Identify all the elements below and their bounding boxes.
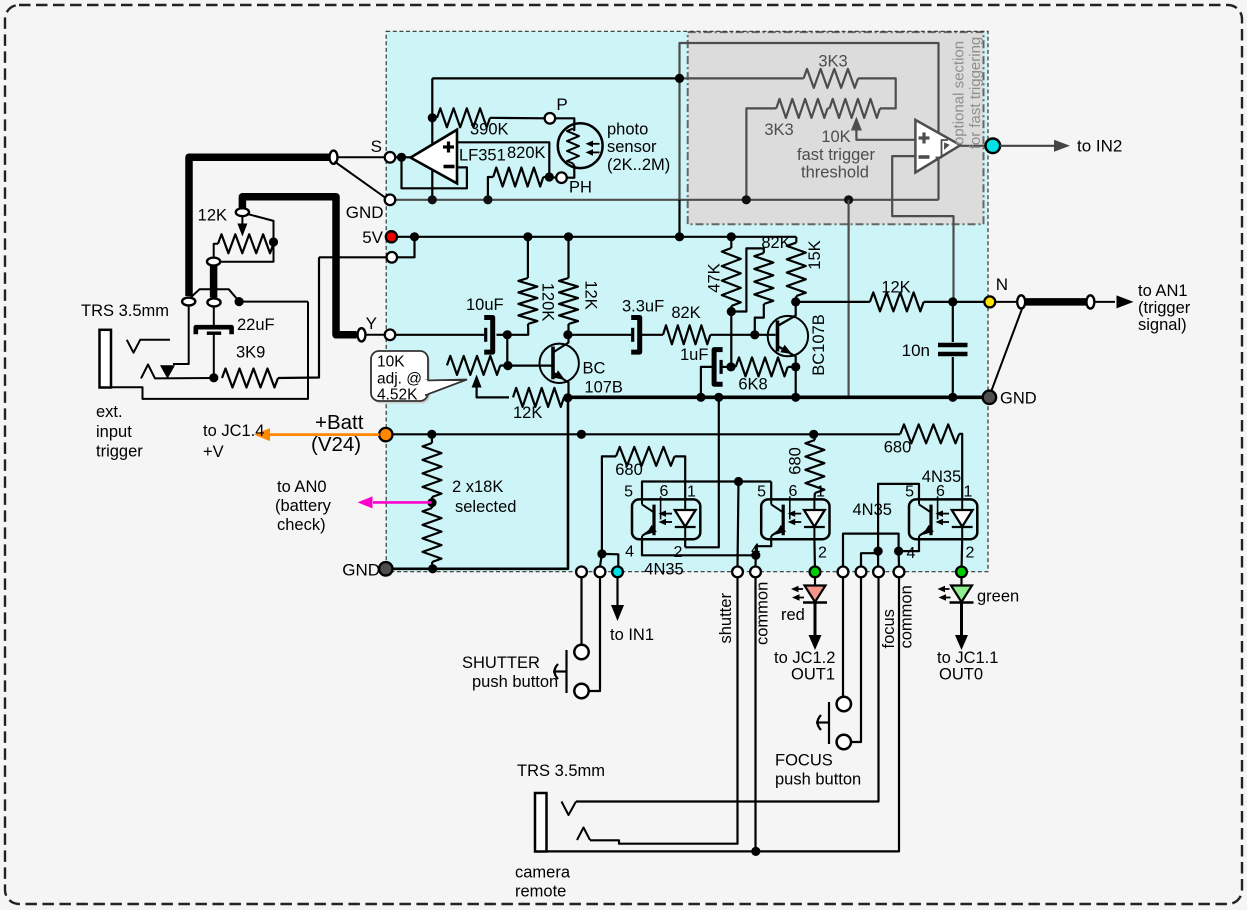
- junction 5V-47K: [727, 232, 736, 241]
- svg-text:LF351: LF351: [459, 147, 506, 165]
- switch SHUTTER contact top: [574, 645, 588, 659]
- junction rail-shutter: [577, 430, 586, 439]
- junction emitter-GND: [563, 393, 572, 402]
- junction 1uF node: [726, 362, 735, 371]
- wire 6K8 right: [788, 366, 796, 368]
- svg-text:input: input: [96, 423, 132, 441]
- svg-text:threshold: threshold: [801, 164, 869, 182]
- svg-text:1: 1: [687, 484, 696, 501]
- wire pin5 U3 run: [642, 482, 771, 500]
- svg-text:to AN0: to AN0: [277, 478, 327, 496]
- op-amp U1 feedback loop: [402, 157, 467, 188]
- resistor 12K output: [870, 292, 924, 311]
- node P terminal: [545, 113, 556, 124]
- junction 5V-120K: [523, 232, 532, 241]
- wire to 120K bottom: [507, 328, 528, 335]
- junction 22uF-3K9: [209, 373, 218, 382]
- node terminal x878.5: [873, 567, 884, 578]
- resistor 680 opto2: [805, 440, 824, 493]
- ext TRS tip contact: [127, 340, 170, 353]
- resistor 82K divider: [754, 253, 773, 304]
- wire pin5 U4: [770, 482, 772, 500]
- svg-text:2 x18K: 2 x18K: [452, 478, 503, 496]
- svg-text:P: P: [556, 95, 567, 114]
- resistor 120K: [518, 278, 537, 324]
- wire 680-1 left: [602, 456, 616, 554]
- junction 5V-12K: [564, 232, 573, 241]
- wire focus pb top: [843, 534, 899, 567]
- wire 680-1 right to pin1: [675, 456, 686, 499]
- svg-text:N: N: [996, 275, 1008, 294]
- wire GND bottom rail: [386, 398, 568, 569]
- ext TRS sleeve: [111, 302, 308, 399]
- svg-text:to JC1.4: to JC1.4: [203, 422, 264, 440]
- svg-text:GND: GND: [342, 561, 380, 580]
- wire Y input: [395, 334, 484, 336]
- wire N cable to GND slant: [991, 308, 1023, 394]
- svg-text:red: red: [781, 606, 805, 624]
- node GND bottom: [379, 562, 392, 575]
- wire 820K to junction: [543, 176, 545, 178]
- wire pot right to cable: [219, 242, 273, 262]
- junction pot right: [269, 237, 278, 246]
- resistor 3K9: [222, 369, 278, 388]
- svg-text:push button: push button: [472, 673, 558, 691]
- wire shutter pb left: [580, 577, 582, 645]
- svg-text:remote: remote: [515, 883, 566, 901]
- wire GND rail: [568, 395, 985, 399]
- pot 12K wiper: [241, 216, 243, 226]
- node terminal x581.5: [576, 567, 587, 578]
- junction 1uF-GND: [696, 393, 705, 402]
- cyan region dashed border: [386, 31, 988, 571]
- wire common emitters to terminal: [754, 555, 756, 566]
- svg-text:optional section: optional section: [951, 41, 968, 145]
- svg-text:2: 2: [818, 545, 827, 562]
- svg-text:camera: camera: [515, 864, 571, 882]
- resistor 820K: [493, 168, 543, 187]
- junction rail-680: [809, 430, 818, 439]
- capacitor 10uF: [484, 328, 487, 342]
- node N terminal: [984, 296, 995, 307]
- wire pot right end: [247, 214, 274, 242]
- wire 5V to return: [397, 237, 414, 257]
- svg-text:(2K..2M): (2K..2M): [607, 156, 670, 174]
- wire 680-3 right to pin1 U5: [959, 434, 962, 500]
- wire pin2 U3: [684, 539, 686, 547]
- arrow to IN1: [616, 577, 618, 605]
- svg-text:2: 2: [674, 544, 683, 561]
- wire focus pb lower: [851, 577, 861, 742]
- junction 18K mid: [427, 498, 436, 507]
- svg-text:10K: 10K: [821, 128, 850, 146]
- arrow to OUT1: [814, 603, 817, 637]
- svg-text:3K3: 3K3: [818, 53, 847, 71]
- cable S thick: [189, 157, 334, 296]
- junction grey-GND riser: [844, 195, 853, 204]
- LED green light arrows: [942, 588, 950, 590]
- wire 120K jog: [527, 324, 529, 328]
- svg-text:push button: push button: [775, 771, 861, 789]
- wire y=78 net: [432, 77, 679, 79]
- svg-text:5: 5: [624, 484, 633, 501]
- wire sleeve run: [239, 301, 308, 303]
- cable Y thick: [242, 197, 356, 335]
- svg-text:PH: PH: [569, 179, 592, 197]
- photo sensor light arrows: [589, 143, 600, 145]
- wire 3.3uF out: [640, 334, 663, 336]
- svg-text:10n: 10n: [902, 341, 930, 360]
- svg-text:4.52K: 4.52K: [377, 387, 418, 404]
- wire noninverting input: [457, 142, 549, 177]
- svg-text:common: common: [898, 585, 916, 648]
- wire ring to cable S: [173, 305, 189, 364]
- junction 10n-GND: [948, 393, 957, 402]
- wire comparator output: [960, 145, 985, 147]
- junction GND-opto1: [714, 393, 723, 402]
- transistor Q1 BC107B: [540, 344, 579, 383]
- svg-text:(battery: (battery: [275, 497, 332, 515]
- wire GND to opto1 LED: [685, 397, 719, 547]
- svg-text:ext.: ext.: [96, 403, 123, 421]
- svg-text:680: 680: [787, 447, 805, 475]
- junction shutter collectors: [734, 477, 743, 486]
- cable pot-22uF thick: [210, 265, 218, 298]
- optocoupler U4 4N35: [761, 499, 829, 539]
- wire 680-2 bottom: [813, 493, 816, 499]
- arrow to JC1.4: [269, 433, 380, 436]
- wire P to photo sensor: [555, 118, 574, 130]
- svg-text:5V: 5V: [362, 228, 383, 247]
- wire shutter pb right: [589, 577, 600, 691]
- svg-text:OUT1: OUT1: [791, 666, 835, 684]
- capacitor 22uF: [213, 307, 215, 328]
- LED green: [960, 577, 962, 585]
- switch FOCUS contact top: [837, 697, 851, 711]
- wire 15K bottom: [795, 296, 797, 302]
- node PH terminal: [556, 172, 567, 183]
- switch SHUTTER contact bottom: [574, 684, 588, 698]
- switch SHUTTER actuator: [565, 650, 567, 693]
- capacitor 1uF: [719, 360, 722, 374]
- node GND right: [983, 391, 996, 404]
- switch FOCUS contact bottom: [837, 735, 851, 749]
- junction 390K left: [428, 113, 437, 122]
- node +Batt terminal: [379, 428, 392, 441]
- svg-text:common: common: [754, 582, 772, 645]
- junction 47K bottom: [727, 307, 736, 316]
- svg-text:shutter: shutter: [717, 593, 735, 644]
- wire base node vertical: [506, 335, 508, 366]
- wire 12K collector bottom: [567, 324, 569, 335]
- camera TRS sleeve: [547, 577, 900, 851]
- svg-text:680: 680: [615, 461, 643, 479]
- wire tip to focus: [576, 577, 879, 801]
- wire 47K to 1uF node: [730, 312, 732, 367]
- svg-text:6: 6: [789, 483, 798, 500]
- pot 10K wiper arrow: [851, 117, 862, 131]
- wire 120K top: [527, 237, 529, 278]
- LED red: [814, 577, 816, 585]
- camera TRS ring contact: [577, 828, 590, 841]
- junction rail-18K: [427, 430, 436, 439]
- wire 18K top: [431, 434, 433, 443]
- node terminal x861: [856, 567, 867, 578]
- junction 5V-y78: [675, 232, 684, 241]
- ext TRS ring contact: [141, 365, 214, 379]
- svg-text:15K: 15K: [806, 240, 824, 269]
- svg-text:5: 5: [905, 484, 914, 501]
- svg-text:10uF: 10uF: [466, 296, 504, 314]
- arrow to OUT0: [960, 603, 963, 637]
- svg-text:22uF: 22uF: [237, 316, 275, 334]
- cable Y end ellipse pot: [236, 208, 249, 216]
- wire 82K divider top: [735, 248, 764, 311]
- svg-text:4: 4: [625, 544, 634, 561]
- wire 12K to N: [924, 301, 985, 303]
- junction collector node: [563, 330, 572, 339]
- wire 3K3 lower to PH net: [746, 108, 776, 199]
- wire shield fan: [190, 289, 240, 301]
- node 5V terminal: [386, 231, 397, 242]
- svg-text:1uF: 1uF: [680, 346, 708, 364]
- wire sensor to PH: [567, 164, 574, 178]
- svg-text:1: 1: [964, 484, 973, 501]
- wire riser to GND rail: [847, 200, 849, 397]
- node terminal x815: [810, 567, 821, 578]
- svg-text:FOCUS: FOCUS: [775, 752, 833, 770]
- switch FOCUS actuator: [828, 702, 830, 744]
- svg-text:2: 2: [966, 545, 975, 562]
- resistor 15K: [787, 243, 806, 296]
- svg-text:47K: 47K: [706, 263, 724, 292]
- svg-text:to IN1: to IN1: [610, 626, 654, 644]
- node Y terminal: [385, 330, 396, 341]
- node terminal x737.5: [732, 567, 743, 578]
- svg-text:TRS 3.5mm: TRS 3.5mm: [81, 302, 169, 320]
- resistor 680 opto3: [900, 424, 959, 443]
- resistor 680 opto1: [616, 447, 675, 466]
- wire top loop of optional section: [680, 43, 939, 200]
- svg-text:10K: 10K: [377, 354, 405, 371]
- svg-text:check): check): [277, 516, 326, 534]
- junction PH-820K: [545, 172, 554, 181]
- resistor 18K upper: [423, 443, 442, 497]
- op-amp U1 LF351: [411, 130, 458, 184]
- main circuit board region (cyan): [386, 31, 988, 571]
- potentiometer 12K: [218, 234, 274, 253]
- junction emitter Q2: [791, 362, 800, 371]
- wire S cable to S terminal: [338, 156, 385, 158]
- svg-text:107B: 107B: [584, 379, 623, 397]
- junction 820K-PH net: [483, 195, 492, 204]
- node terminal x600: [595, 567, 606, 578]
- wire ring to shutter: [590, 577, 738, 843]
- junction 15K-collector: [791, 297, 800, 306]
- comparator inverting input loop: [892, 156, 953, 302]
- node terminal x899: [894, 567, 905, 578]
- wire 3K3 to pot: [858, 78, 896, 108]
- ext TRS jack body: [100, 330, 112, 388]
- wire 5V rail: [397, 236, 796, 238]
- wire pin4 U4: [756, 539, 771, 555]
- resistor 3K3 lower: [776, 99, 827, 118]
- junction Q2-GND: [791, 393, 800, 402]
- svg-text:12K: 12K: [198, 207, 227, 225]
- LED red light arrows: [795, 588, 803, 590]
- svg-text:680: 680: [884, 439, 912, 457]
- wire 47K top: [730, 237, 732, 248]
- svg-text:adj. @: adj. @: [377, 371, 422, 388]
- svg-text:green: green: [977, 588, 1019, 606]
- svg-text:3K3: 3K3: [764, 121, 793, 139]
- junction 3K3-PH: [742, 195, 751, 204]
- node terminal x843: [838, 567, 849, 578]
- wire 3K9 to 5Vret: [278, 257, 319, 378]
- svg-text:selected: selected: [455, 498, 516, 516]
- callout bubble 10K adj: [371, 351, 428, 401]
- junction shield-sleeve: [235, 297, 244, 306]
- svg-text:BC: BC: [583, 360, 606, 378]
- svg-text:GND: GND: [1000, 390, 1037, 408]
- svg-text:to IN2: to IN2: [1077, 137, 1122, 156]
- wire PH junction: [549, 176, 556, 179]
- svg-text:4N35: 4N35: [853, 501, 892, 519]
- resistor 12K emitter: [513, 388, 564, 407]
- svg-text:to JC1.2: to JC1.2: [774, 649, 835, 667]
- junction 680-1 node: [597, 549, 606, 558]
- cable S end ellipse bottom: [182, 298, 195, 306]
- junction op-amp PH net: [428, 195, 437, 204]
- resistor 390K: [437, 108, 490, 127]
- wire 5Vret: [319, 256, 386, 258]
- svg-text:BC107B: BC107B: [810, 314, 828, 375]
- cable seg ellipse top: [207, 258, 220, 266]
- wire base: [508, 365, 552, 367]
- wire 820K left to PH net: [488, 177, 493, 200]
- node PH-390K vertical: [431, 78, 433, 199]
- camera TRS tip contact: [562, 802, 577, 816]
- svg-text:6: 6: [936, 483, 945, 500]
- resistor 82K coupling: [663, 325, 710, 344]
- optocoupler U3 4N35: [632, 499, 700, 539]
- capacitor 10n: [952, 302, 954, 342]
- node S terminal: [385, 152, 396, 163]
- wire +Batt rail: [393, 433, 901, 435]
- node to IN2 (cyan): [986, 139, 1001, 154]
- cable trigger signal: [995, 301, 1018, 303]
- junction focus node: [874, 547, 883, 556]
- svg-text:trigger: trigger: [96, 443, 143, 461]
- svg-text:390K: 390K: [470, 121, 509, 139]
- wire pin2 U4 to out1: [813, 539, 816, 566]
- optional fast-trigger section (grey box): [688, 32, 984, 224]
- svg-text:GND: GND: [346, 203, 384, 222]
- wire pin4 U5: [899, 539, 919, 551]
- node terminal x961.5: [956, 567, 967, 578]
- svg-text:sensor: sensor: [607, 138, 657, 156]
- junction common emitters: [751, 551, 760, 560]
- cable seg ellipse bottom: [207, 298, 220, 306]
- op-amp U2 comparator: [915, 120, 960, 173]
- wire pin2 U5 to out0: [960, 539, 963, 566]
- node 5V return terminal: [387, 252, 398, 263]
- wire 680-2 top: [814, 434, 815, 440]
- svg-text:OUT0: OUT0: [939, 666, 983, 684]
- svg-text:12K: 12K: [513, 404, 542, 422]
- svg-text:820K: 820K: [507, 144, 546, 162]
- svg-text:5: 5: [757, 484, 766, 501]
- node terminal x617.5: [612, 567, 623, 578]
- svg-text:to AN1: to AN1: [1138, 282, 1188, 300]
- junction 18K-GND: [428, 564, 437, 573]
- wire 82K divider bottom: [755, 304, 764, 335]
- node terminal x755.5: [750, 567, 761, 578]
- svg-text:3.3uF: 3.3uF: [622, 298, 664, 316]
- svg-text:S: S: [371, 137, 382, 156]
- wire PH net into grey box (horizontal y=200): [395, 199, 938, 201]
- wire 390K to P: [490, 117, 545, 120]
- svg-text:photo: photo: [607, 121, 648, 139]
- svg-text:Y: Y: [366, 314, 377, 333]
- wire 15K node to 12K: [796, 301, 870, 303]
- photo sensor LDR: [558, 123, 603, 168]
- svg-text:82K: 82K: [761, 234, 790, 252]
- svg-text:6K8: 6K8: [738, 376, 767, 394]
- svg-text:4N35: 4N35: [644, 561, 683, 579]
- optocoupler U5 4N35: [909, 499, 977, 539]
- wire 18K mid: [431, 497, 433, 508]
- svg-text:signal): signal): [1138, 316, 1187, 334]
- svg-text:82K: 82K: [671, 304, 700, 322]
- svg-text:12K: 12K: [582, 280, 600, 309]
- svg-text:(trigger: (trigger: [1138, 299, 1191, 317]
- wire 10uF out: [497, 334, 504, 336]
- potentiometer 10K adj: [447, 356, 500, 375]
- wire common2 to terminal: [897, 551, 900, 566]
- svg-text:6: 6: [660, 483, 669, 500]
- resistor 47K: [722, 248, 741, 306]
- svg-text:4: 4: [907, 545, 916, 562]
- resistor 6K8: [736, 357, 788, 376]
- svg-text:12K: 12K: [881, 279, 910, 297]
- junction sleeve-common: [751, 847, 760, 856]
- wire focus jog: [861, 551, 878, 566]
- wire 12K collector top: [567, 237, 569, 278]
- svg-text:SHUTTER: SHUTTER: [462, 654, 540, 672]
- wire Y cable to Y terminal: [366, 334, 385, 336]
- svg-text:TRS 3.5mm: TRS 3.5mm: [517, 762, 605, 780]
- wire op-amp output to S: [395, 156, 410, 158]
- resistor 18K lower: [423, 508, 442, 562]
- wire 5V drop from y78 node: [678, 200, 680, 237]
- ext TRS ring triangle: [160, 365, 175, 379]
- junction output: [397, 153, 406, 162]
- resistor 3K3 upper: [804, 69, 859, 88]
- wire 1uF node to 6K8: [722, 366, 736, 368]
- arrow to IN2: [1000, 145, 1062, 147]
- wire collectors to shutter terminal: [738, 482, 739, 567]
- wire emitter Q2 to GND: [795, 367, 797, 397]
- svg-text:+Batt: +Batt: [315, 411, 364, 434]
- junction common2 node: [894, 547, 903, 556]
- svg-text:+V: +V: [203, 443, 224, 461]
- transistor Q2 BC107B: [768, 316, 808, 356]
- wire pin4 U3 run: [642, 539, 756, 555]
- junction 5V-a: [410, 232, 419, 241]
- wire node to pb terminal: [600, 554, 602, 567]
- junction base node: [503, 361, 512, 370]
